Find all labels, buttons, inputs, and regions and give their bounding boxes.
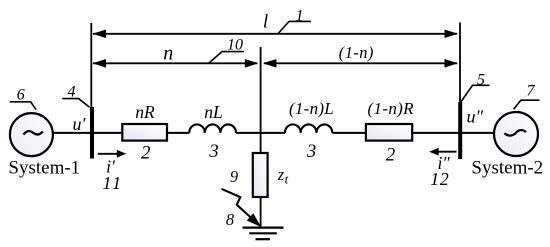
- svg-text:u″: u″: [467, 106, 484, 126]
- svg-text:1: 1: [296, 7, 304, 24]
- svg-text:l: l: [263, 12, 268, 33]
- svg-text:4: 4: [68, 83, 76, 100]
- svg-text:(1-n)L: (1-n)L: [289, 99, 334, 118]
- svg-text:5: 5: [477, 71, 485, 88]
- svg-text:3: 3: [208, 141, 219, 162]
- svg-text:11: 11: [102, 173, 123, 193]
- svg-text:System-1: System-1: [8, 158, 80, 179]
- svg-text:nL: nL: [204, 102, 222, 122]
- svg-text:9: 9: [230, 167, 238, 186]
- svg-text:12: 12: [430, 169, 449, 189]
- svg-text:10: 10: [227, 36, 243, 53]
- svg-text:2: 2: [386, 144, 396, 165]
- svg-text:8: 8: [226, 210, 235, 229]
- svg-text:nR: nR: [135, 102, 155, 122]
- svg-text:(1-n): (1-n): [339, 43, 374, 62]
- svg-text:6: 6: [17, 87, 25, 104]
- svg-text:7: 7: [527, 83, 536, 100]
- svg-text:System-2: System-2: [471, 158, 543, 179]
- svg-text:3: 3: [306, 141, 317, 162]
- svg-text:n: n: [163, 42, 173, 64]
- svg-text:u′: u′: [73, 114, 87, 134]
- svg-text:(1-n)R: (1-n)R: [367, 99, 414, 118]
- svg-text:2: 2: [141, 142, 151, 163]
